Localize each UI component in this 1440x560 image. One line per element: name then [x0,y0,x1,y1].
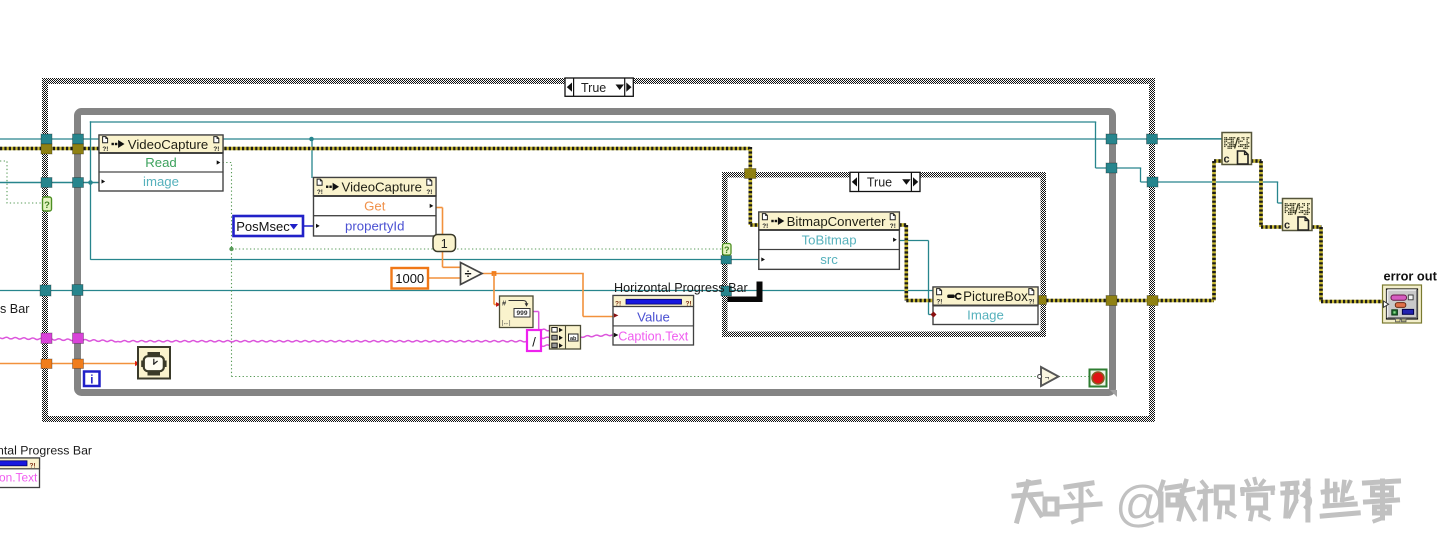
svg-text:¬: ¬ [1045,373,1050,382]
svg-text:propertyId: propertyId [345,218,404,233]
svg-text:/: / [532,335,536,350]
enum constant PosMsec [234,216,304,236]
svg-text:?!: ?! [936,299,942,306]
svg-text:?!: ?! [426,189,432,196]
svg-text:PosMsec: PosMsec [236,219,290,234]
inner case structure border [722,172,1046,337]
property node Value/Caption.Text [613,296,694,346]
svg-text:s Bar: s Bar [0,302,29,316]
numeric constant 1000 [392,268,429,289]
svg-text:c: c [1224,154,1230,166]
loop condition stop terminal [1090,370,1107,387]
error out indicator [1383,285,1422,323]
svg-text:?!: ?! [317,189,323,196]
invoke node VideoCapture Get/propertyId [314,178,437,237]
wire orange 1000 to divide [428,277,461,279]
svg-text:?!: ?! [890,223,896,230]
svg-text:BitmapConverter: BitmapConverter [787,214,887,229]
wire teal image input (y=182.5) [0,180,100,185]
wire magenta string main [0,337,527,342]
wire error into BitmapConverter [750,147,759,225]
svg-text:?!: ?! [762,223,768,230]
svg-text:1000: 1000 [395,271,424,286]
Mat to Image conversion icon 1 [1222,133,1252,166]
svg-text:999: 999 [516,310,527,317]
svg-text:?!: ?! [102,146,108,153]
outer case structure border [42,78,1155,422]
svg-text:Value: Value [637,310,670,325]
svg-text:PictureBox: PictureBox [963,289,1028,304]
svg-text:ToBitmap: ToBitmap [802,232,857,247]
tunnels on structure borders [40,134,1158,369]
not function [1038,367,1059,386]
label error out [1384,269,1438,284]
case selector ? inner [723,244,732,256]
invoke node BitmapConverter [759,212,900,269]
svg-text:VideoCapture: VideoCapture [342,180,422,195]
wire orange Get to divide [436,208,461,268]
wire green boolean Read output net [223,163,1091,377]
numeric constant 1 [433,235,456,252]
svg-text:Get: Get [364,198,386,213]
wire magenta number-string to concat [533,312,550,331]
svg-text:ab: ab [570,336,577,342]
wire teal case to icon1 (y=139) [1155,138,1223,140]
string constant slash [527,330,541,351]
wire blue enum to propertyId [303,225,314,227]
watermark 知乎 @做视觉那些事 [1014,476,1399,532]
wire error BitmapConverter to PictureBox [899,225,934,301]
wire magenta concat to Caption.Text [581,335,613,338]
divide function [461,263,483,285]
svg-text:True: True [581,81,606,95]
svg-text:?!: ?! [213,146,219,153]
svg-text:?!: ?! [30,463,36,470]
wait ms function [138,347,170,379]
Mat to Image conversion icon 2 [1283,199,1313,232]
svg-text:c: c [1284,220,1290,232]
wire teal ToBitmap to Image [899,241,934,315]
wire orange wait input (y=363.5) [0,361,140,366]
svg-text:src: src [820,252,838,267]
wire magenta slash to concat [541,337,550,346]
svg-text:image: image [143,174,179,189]
concatenate strings function [550,326,581,350]
wire orange divide output [482,271,613,316]
wire error icon1 to icon2 [1251,161,1283,227]
svg-text:Image: Image [967,308,1004,323]
svg-text:i: i [90,374,93,386]
svg-text:on.Text: on.Text [0,471,38,485]
label Horizontal Progress Bar [614,281,748,295]
wire teal VideoCapture reference (y=139) [0,137,1222,178]
svg-text:ntal Progress Bar: ntal Progress Bar [0,444,92,458]
outer case True selector label [565,78,633,96]
svg-text:error out: error out [1384,269,1438,284]
black corner mark [728,282,763,303]
wire error PictureBox to right side [1038,161,1223,301]
svg-text:?: ? [724,245,730,255]
property node PictureBox Image [931,287,1039,325]
svg-text:Caption.Text: Caption.Text [618,329,689,343]
clipped property node Caption.Text [0,458,40,488]
svg-text:?!: ?! [1028,299,1034,306]
svg-text:True: True [867,176,892,190]
svg-text:@: @ [1115,476,1166,532]
while loop border [78,112,1118,398]
wire green boolean selector outer [0,161,42,203]
label s Bar clipped [0,302,29,316]
inner case True selector label [850,172,920,191]
svg-text:Read: Read [145,155,177,170]
svg-text:÷: ÷ [465,267,472,281]
iteration terminal i [84,372,100,387]
wire error cluster main (y=148.5) [0,147,750,151]
wire error icon2 to error out [1312,227,1384,302]
label ntal Progress Bar clipped [0,444,92,458]
case selector ? outer [43,197,52,211]
number to fractional string function [500,296,534,328]
wire teal PictureBox reference (y=290.5) [0,290,934,292]
wire teal reference loop rectangle [90,121,1283,259]
svg-text:?: ? [44,200,50,211]
svg-text:VideoCapture: VideoCapture [128,137,208,152]
svg-text:|↔|: |↔| [502,321,512,327]
invoke node VideoCapture Read/image [99,135,223,191]
svg-text:1: 1 [441,237,448,251]
svg-text:Horizontal Progress Bar: Horizontal Progress Bar [614,281,748,295]
